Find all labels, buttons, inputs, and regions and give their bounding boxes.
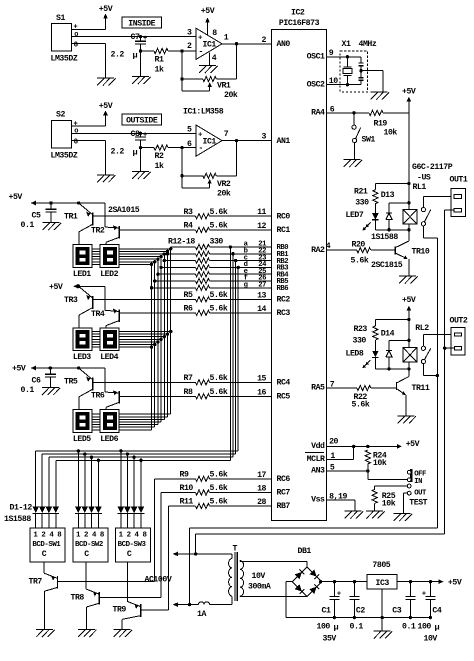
node RB tap line 4: [229, 245, 232, 248]
resistor R11 5.6k: [180, 497, 228, 509]
+5V Vdd: [393, 440, 420, 449]
svg-text:o: o: [74, 128, 78, 136]
pin 3 (AN1) number: [262, 133, 267, 142]
transformer T primary AC100V: [145, 554, 232, 605]
svg-text:BCD-SW3: BCD-SW3: [118, 541, 147, 549]
node D13 branch: [407, 201, 410, 204]
load capacitor C lower: [358, 71, 363, 85]
pin label RB1: [277, 251, 290, 259]
wire S2 GND pin: [71, 140, 105, 174]
svg-text:28: 28: [257, 498, 266, 507]
resistor R6 5.6k: [184, 304, 228, 316]
regulator IC3 7805: [367, 561, 397, 589]
potentiometer VR2 20k: [182, 173, 237, 199]
feedback wire op-amp2: [181, 148, 183, 176]
svg-text:15: 15: [257, 374, 266, 383]
svg-text:17: 17: [257, 471, 266, 480]
wire TR8 base: [99, 493, 161, 598]
AC plug upper: [173, 552, 231, 557]
diode D3 1S1588: [46, 507, 52, 528]
svg-text:BCD-SW1: BCD-SW1: [32, 541, 61, 549]
wire AC switched bus A: [190, 238, 438, 605]
wire Vdd: [327, 445, 393, 447]
node C7 top: [139, 35, 142, 38]
svg-text:OUT1: OUT1: [450, 176, 468, 185]
svg-text:R20: R20: [352, 241, 366, 250]
svg-text:AC100V: AC100V: [145, 575, 172, 584]
relay RL1 contact: [421, 208, 431, 226]
pin 5 number: [330, 463, 335, 472]
LED display LED1: [73, 245, 92, 279]
wire VR2 to output: [236, 141, 238, 176]
svg-text:DB1: DB1: [298, 547, 312, 556]
pin label AN3: [311, 467, 325, 476]
wire row2 segment c stub: [92, 336, 164, 338]
LED display LED6: [100, 410, 119, 444]
wire row1 segment f stub: [92, 261, 155, 263]
diode D7 1S1588: [88, 507, 94, 528]
wire op-amp2 output to AN1: [222, 140, 272, 142]
resistor R16 330: [196, 272, 210, 277]
svg-text:LED4: LED4: [100, 353, 118, 362]
svg-text:0.1: 0.1: [350, 622, 364, 631]
label C2 value: [350, 622, 364, 631]
node SW1 top: [352, 111, 355, 114]
svg-text:OSC1: OSC1: [307, 52, 325, 61]
wire segment bus d vertical: [160, 257, 162, 422]
svg-text:RC3: RC3: [277, 309, 291, 318]
svg-text:8: 8: [212, 29, 217, 38]
svg-text:IC1: IC1: [203, 137, 217, 146]
wire IC3 ground: [381, 589, 384, 631]
resistor R4 5.6k: [184, 221, 228, 233]
svg-text:7805: 7805: [372, 561, 390, 570]
svg-text:20k: 20k: [224, 90, 238, 100]
node R24 top: [366, 445, 369, 448]
svg-text:C2: C2: [356, 607, 365, 616]
resistor R20 5.6k: [351, 241, 396, 266]
svg-text:OUTSIDE: OUTSIDE: [126, 116, 158, 125]
wire R10 line: [161, 492, 272, 494]
node OSC1/X1: [346, 55, 349, 58]
node bus tap D9: [119, 449, 122, 452]
wire OSC1: [327, 56, 361, 58]
svg-text:G6C-2117P: G6C-2117P: [412, 163, 453, 172]
pin label RB3: [277, 265, 289, 273]
node OSC2/X1: [346, 83, 349, 86]
node VR2 left: [180, 174, 183, 177]
svg-text:MCLR: MCLR: [307, 455, 325, 464]
pin 23 number: [258, 254, 266, 262]
svg-text:330: 330: [355, 199, 369, 208]
svg-text:R8: R8: [184, 388, 193, 397]
pin label RB2: [277, 258, 289, 266]
node row2 segment d: [159, 338, 162, 341]
ground SW1: [344, 160, 363, 168]
label R12-18 330: [168, 238, 223, 247]
wire op-amp1 output to AN0: [222, 43, 272, 45]
svg-text:+5V: +5V: [99, 5, 113, 14]
wire BCD bus line 2: [42, 453, 236, 455]
node segment d / R15: [159, 266, 162, 269]
diode D9 1S1588: [118, 507, 124, 528]
LED display LED2: [100, 245, 119, 279]
wire S2 output: [71, 132, 196, 134]
MCLR overline: [305, 451, 324, 453]
node bus tap D10: [126, 452, 129, 455]
pin 8 +5V op-amp1: [201, 7, 217, 38]
wire BCD bus line 1 riser: [237, 267, 239, 451]
node row1 segment g: [150, 263, 153, 266]
svg-text:6: 6: [330, 105, 335, 114]
pin 4 number: [326, 242, 331, 251]
resistor R8 5.6k: [184, 387, 228, 399]
label box OUTSIDE: [122, 114, 162, 126]
pin label OSC1: [307, 52, 325, 61]
wire BCD bus line 3: [49, 456, 233, 458]
node bus tap D5: [77, 449, 80, 452]
BCD switch SW3: [115, 528, 150, 562]
svg-text:C6: C6: [32, 377, 41, 386]
wire RB0 segment a line: [171, 246, 272, 248]
node C6: [49, 366, 52, 369]
wire DC plus rail: [322, 581, 439, 583]
crystal X1 4MHz: [342, 40, 377, 85]
node D13 bottom: [387, 228, 390, 231]
svg-text:2.2: 2.2: [111, 147, 125, 156]
diode D13 1S1588: [381, 191, 409, 230]
transistor TR6 2SA1015: [91, 368, 119, 410]
node row2 segment g: [150, 345, 153, 348]
wire row2 segment d stub: [92, 338, 161, 340]
svg-text:C7: C7: [131, 33, 140, 42]
svg-text:5: 5: [187, 125, 192, 134]
svg-text:C5: C5: [32, 212, 41, 221]
resistor R5 5.6k: [184, 290, 228, 302]
ground op-amp1: [199, 66, 218, 74]
svg-text:6: 6: [187, 140, 192, 149]
ground TR11: [398, 416, 417, 424]
svg-text:+5V: +5V: [99, 102, 113, 111]
svg-text:TR7: TR7: [29, 577, 43, 586]
svg-text:G: G: [74, 42, 78, 50]
svg-text:10k: 10k: [384, 128, 398, 138]
node D14 bottom: [387, 367, 390, 370]
pin 3 label: [187, 29, 192, 38]
pin 12 number: [257, 222, 266, 231]
sensor S1 LM35DZ: [51, 14, 79, 64]
wire R6 line: [119, 312, 272, 314]
svg-text:IC3: IC3: [376, 579, 390, 588]
svg-text:C: C: [84, 550, 89, 559]
svg-text:R3: R3: [184, 208, 193, 217]
node bus tap D6: [83, 452, 86, 455]
resistor R3 5.6k: [184, 207, 228, 219]
ground Vss: [345, 511, 364, 519]
wire row1 segment g stub: [92, 263, 152, 265]
svg-text:330: 330: [210, 238, 224, 247]
node MCLR/Vdd: [352, 445, 355, 448]
svg-text:5.6k: 5.6k: [210, 304, 228, 314]
wire R8 line: [119, 395, 272, 397]
svg-text:μ: μ: [334, 622, 339, 632]
svg-text:5.6k: 5.6k: [210, 483, 228, 493]
AC plug lower: [173, 602, 199, 607]
svg-text:1: 1: [330, 452, 335, 461]
svg-text:μ: μ: [435, 622, 440, 632]
svg-text:OUT2: OUT2: [450, 317, 468, 326]
fuse 1A: [197, 602, 231, 619]
svg-text:RA5: RA5: [311, 384, 325, 393]
pin 24 number: [258, 261, 267, 269]
wire RA4: [327, 112, 369, 114]
svg-text:2SA1015: 2SA1015: [108, 206, 140, 215]
pin label RA2: [311, 246, 325, 255]
svg-text:5.6k: 5.6k: [210, 207, 228, 217]
diode D5 1S1588: [75, 507, 81, 528]
wire OUT1 pin2: [445, 209, 455, 211]
pin label RB5: [277, 278, 289, 286]
svg-text:TR10: TR10: [412, 247, 430, 256]
wire DC ground rail: [286, 617, 431, 619]
wire segment bus b vertical: [167, 251, 169, 416]
ground IC3: [374, 631, 393, 639]
diode group 3 cathode bar: [118, 512, 145, 514]
transistor TR8 2SA1015: [71, 562, 100, 630]
BCD switch SW1: [30, 528, 65, 562]
node op-amp2 output: [235, 139, 238, 142]
resistor R10 5.6k: [180, 483, 228, 495]
svg-text:LED6: LED6: [100, 435, 118, 444]
node segment b / R13: [166, 252, 169, 255]
node RB tap line 2: [234, 259, 237, 262]
pin label RC6: [277, 475, 291, 484]
label C4 value: [418, 622, 440, 643]
wire diode D12 feed: [140, 460, 142, 506]
resistor R12 330: [196, 244, 210, 249]
node row1 segment f: [153, 260, 156, 263]
wire R4 line: [119, 229, 272, 231]
segment letter f: [244, 275, 248, 283]
wire crystal ground: [361, 71, 383, 92]
svg-text:R2: R2: [155, 152, 164, 161]
pin label RA5: [311, 384, 325, 393]
svg-text:9: 9: [329, 49, 334, 58]
wire op-amp1 pin2: [182, 50, 196, 52]
svg-text:AN0: AN0: [277, 40, 291, 49]
transistor TR7 2SA1015: [29, 562, 58, 630]
switch TEST: [407, 470, 427, 508]
bridge rectifier DB1 outline: [292, 547, 322, 597]
wire diode D8 feed: [97, 460, 99, 506]
pin 15 number: [257, 374, 266, 383]
svg-text:RB7: RB7: [277, 502, 291, 511]
label box INSIDE: [122, 17, 162, 29]
svg-text:1 2 4 8: 1 2 4 8: [119, 532, 148, 540]
transistor TR3 2SA1015: [64, 286, 93, 328]
svg-text:R1: R1: [155, 56, 164, 65]
svg-text:R10: R10: [180, 484, 194, 493]
diode D1 1S1588: [33, 507, 39, 528]
pin label RB7: [277, 502, 291, 511]
label C1 value: [317, 622, 339, 643]
svg-text:2: 2: [262, 36, 267, 45]
transistor TR5 2SA1015: [64, 368, 93, 410]
pin label RB4: [277, 271, 290, 279]
wire row3 segment d stub: [92, 421, 161, 423]
capacitor C2: [349, 580, 365, 619]
node row1 segment b: [166, 250, 169, 253]
wire RA5 to R22: [327, 387, 357, 389]
diode group 2 cathode bar: [75, 512, 102, 514]
resistor R9 5.6k: [180, 469, 228, 481]
+5V relay2: [402, 296, 416, 319]
svg-text:4: 4: [212, 54, 217, 63]
svg-text:R23: R23: [354, 325, 368, 334]
relay RL1 coil: [403, 209, 417, 224]
label C3 value: [402, 622, 416, 631]
svg-text:SW1: SW1: [362, 136, 376, 145]
resistor R19 10k: [369, 110, 409, 137]
svg-text:LED3: LED3: [73, 353, 91, 362]
diode D4 1S1588: [53, 507, 59, 528]
wire S1 Vs pin to +5V: [71, 19, 105, 30]
wire row3 segment a stub: [92, 413, 171, 415]
node relay2 coil bottom: [407, 367, 410, 370]
node row1 segment e: [156, 258, 159, 261]
node C8 top: [139, 132, 142, 135]
node OUT2 pin2 tap: [443, 347, 446, 350]
relay RL2 coil: [403, 348, 417, 363]
resistor R23 330: [353, 320, 409, 351]
wire coil1 to TR10: [408, 224, 410, 241]
VR1 wiper loop: [182, 79, 212, 91]
ground TR10: [399, 276, 418, 284]
svg-text:RC6: RC6: [277, 475, 291, 484]
resistor R15 330: [196, 265, 210, 270]
wire row3 segment e stub: [92, 424, 158, 426]
pin 9 number: [329, 49, 334, 58]
pin label RC2: [277, 296, 291, 305]
svg-text:BCD-SW2: BCD-SW2: [75, 541, 103, 549]
wire diode D1 feed: [35, 451, 37, 507]
wire MCLR: [327, 446, 354, 459]
wire RL1 contact bottom: [423, 226, 437, 238]
ground R25: [366, 511, 385, 519]
svg-text:RB6: RB6: [277, 285, 289, 293]
capacitor C8: [111, 130, 148, 172]
transistor TR11 2SC1815: [397, 377, 430, 416]
switch SW1: [352, 113, 375, 160]
pin 10 number: [329, 77, 338, 86]
resistor R21 330: [354, 184, 409, 214]
pin label Vdd: [311, 441, 325, 451]
node R1/C7: [139, 49, 142, 52]
diode D10 1S1588: [124, 507, 130, 528]
node segment e / R16: [156, 273, 159, 276]
svg-text:+: +: [143, 132, 147, 140]
wire row2 segment a stub: [92, 331, 171, 333]
label 1S1588 relay1: [371, 233, 398, 242]
IC U2 PIC16F873: [272, 8, 327, 520]
wire diode D10 feed: [126, 454, 128, 507]
svg-text:3: 3: [262, 133, 267, 142]
svg-text:TR11: TR11: [412, 384, 430, 393]
resistor R25 10k: [372, 486, 407, 511]
diode D8 1S1588: [95, 507, 101, 528]
LED7: [346, 211, 379, 230]
relay RL2 contact: [421, 346, 431, 363]
node R23 branch: [407, 318, 410, 321]
svg-text:10V: 10V: [252, 572, 266, 581]
wire R11 line: [168, 505, 271, 507]
svg-text:TR1: TR1: [64, 213, 78, 222]
wire row3 segment f stub: [92, 426, 155, 428]
svg-text:+: +: [143, 35, 147, 43]
pin label MCLR: [307, 455, 325, 464]
wire R3 line: [93, 215, 272, 217]
node AC top / bus B: [194, 552, 197, 555]
svg-text:C4: C4: [432, 607, 441, 616]
svg-text:D1-12: D1-12: [10, 503, 33, 512]
resistor R2 1k: [141, 145, 183, 171]
ground TR8: [78, 630, 97, 638]
svg-text:2.2: 2.2: [111, 51, 125, 60]
ground TR9: [114, 630, 133, 638]
wire row3 segment b stub: [92, 416, 168, 418]
wire segment bus c vertical: [163, 254, 165, 419]
connector OUT2: [450, 317, 468, 355]
transistor TR1 2SA1015: [64, 203, 93, 245]
pin label AN0: [277, 40, 291, 49]
svg-text:TR9: TR9: [113, 606, 127, 615]
+5V supply S2: [99, 102, 113, 116]
LED display LED4: [100, 328, 119, 362]
svg-text:5.6k: 5.6k: [210, 373, 228, 383]
wire RB4 segment e line: [158, 273, 272, 275]
node TR1 emitter: [77, 201, 80, 204]
label 1S1588: [4, 515, 31, 524]
svg-text:0.1: 0.1: [21, 221, 35, 230]
wire BCD bus line 2 riser: [235, 261, 237, 455]
svg-text:RL1: RL1: [413, 183, 427, 192]
feedback wire op-amp1: [181, 51, 183, 79]
svg-text:1k: 1k: [155, 161, 164, 171]
transistor TR9 2SA1015: [113, 562, 141, 630]
pin 8,19 number: [329, 492, 347, 501]
svg-text:LED7: LED7: [346, 211, 364, 220]
connector OUT1: [450, 176, 468, 217]
node row1 segment c: [163, 252, 166, 255]
transformer T secondary 10V 300mA: [240, 561, 307, 597]
wire segment bus a vertical: [170, 247, 172, 414]
LED display LED5: [73, 410, 92, 444]
pin label RB0: [277, 244, 289, 252]
pin label RC7: [277, 489, 291, 498]
pin 2 label: [187, 42, 192, 51]
ground TEST: [394, 514, 413, 522]
svg-text:IC1:LM358: IC1:LM358: [183, 108, 224, 117]
svg-text:R4: R4: [184, 222, 193, 231]
wire R9 line: [155, 478, 272, 480]
svg-text:RC2: RC2: [277, 296, 291, 305]
wire row2 segment f stub: [92, 344, 155, 346]
node row2 segment b: [166, 332, 169, 335]
op-amp IC1a: [196, 28, 222, 59]
node AC bottom / bus A: [188, 603, 191, 606]
svg-text:5.6k: 5.6k: [210, 221, 228, 231]
wire diode D7 feed: [91, 457, 93, 507]
